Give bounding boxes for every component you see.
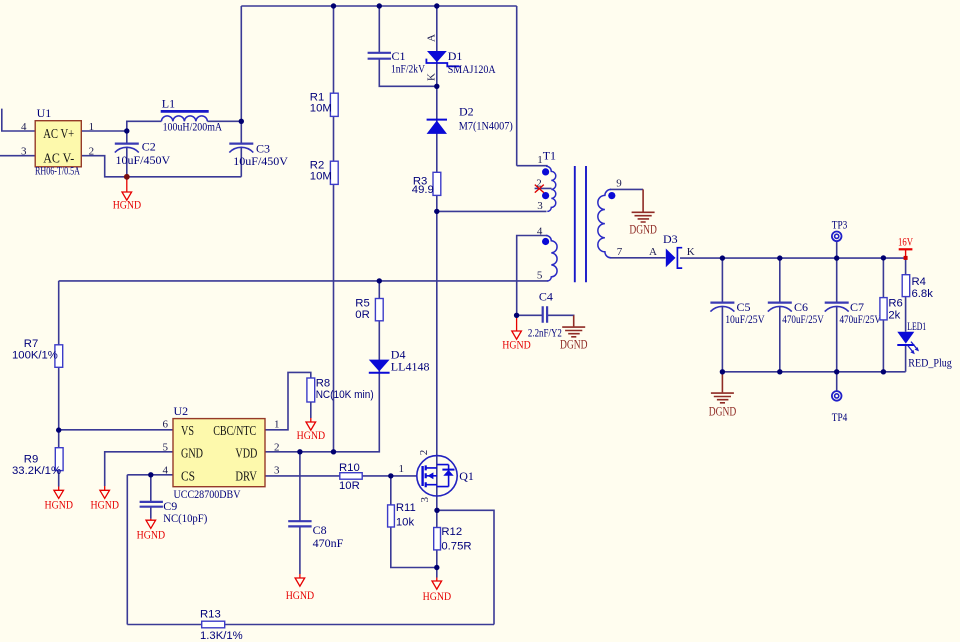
wire: VS pin6	[59, 429, 173, 431]
ground HGND (R12 source)	[423, 568, 452, 604]
wire: C1 branch	[379, 6, 437, 86]
svg-text:CS: CS	[181, 469, 195, 484]
capacitor C3	[229, 142, 288, 168]
IC U2 UCC28700	[163, 404, 281, 501]
ground DGND (C5)	[709, 372, 737, 419]
svg-text:DGND: DGND	[629, 222, 657, 236]
svg-text:SMAJ120A: SMAJ120A	[448, 62, 496, 76]
svg-text:UCC28700DBV: UCC28700DBV	[174, 487, 241, 501]
svg-text:6: 6	[163, 419, 169, 431]
wire: TP4 stem	[836, 372, 838, 392]
wire: C7 legs	[836, 258, 838, 372]
svg-text:D2: D2	[459, 104, 474, 118]
svg-text:HGND: HGND	[502, 340, 531, 352]
wire: C3 legs	[240, 121, 242, 177]
svg-text:M7(1N4007): M7(1N4007)	[459, 118, 513, 132]
transformer T1 primary winding 4-5	[537, 226, 557, 282]
ground HGND (R9)	[45, 487, 74, 512]
svg-text:Q1: Q1	[459, 469, 474, 483]
wire: R6 branch	[882, 258, 884, 372]
resistor R3	[412, 172, 441, 196]
svg-text:HGND: HGND	[286, 590, 315, 602]
transistor Q1	[417, 450, 474, 503]
svg-text:470uF/25V: 470uF/25V	[782, 312, 824, 326]
resistor R2	[310, 159, 338, 184]
svg-text:R7: R7	[24, 338, 38, 350]
svg-text:3: 3	[21, 146, 27, 158]
svg-text:100K/1%: 100K/1%	[12, 349, 58, 361]
svg-text:3: 3	[537, 200, 543, 212]
svg-text:9: 9	[616, 177, 622, 189]
svg-text:470nF: 470nF	[313, 536, 344, 550]
svg-text:10uF/25V: 10uF/25V	[725, 312, 765, 326]
wire: secondary return rail	[722, 371, 905, 373]
svg-text:16V: 16V	[898, 237, 914, 249]
test point TP3	[832, 217, 848, 241]
svg-text:HGND: HGND	[423, 591, 452, 603]
wire: C5 legs	[721, 258, 723, 372]
resistor R11	[388, 502, 416, 528]
svg-text:K: K	[687, 246, 695, 258]
ground DGND (C4)	[560, 315, 588, 351]
svg-text:HGND: HGND	[45, 499, 74, 511]
svg-text:DRV: DRV	[235, 469, 257, 484]
wire: AC input stub pin4	[2, 109, 35, 131]
svg-text:C2: C2	[142, 139, 156, 153]
svg-text:HGND: HGND	[91, 499, 120, 511]
wire: CBC/NTC pin1 to R8	[265, 372, 311, 429]
svg-text:R11: R11	[396, 502, 416, 514]
capacitor C7	[825, 300, 882, 326]
svg-text:AC V+: AC V+	[43, 126, 74, 141]
svg-text:HGND: HGND	[113, 200, 142, 212]
capacitor C4	[528, 290, 562, 340]
svg-text:5: 5	[537, 269, 543, 281]
power port 16V	[898, 237, 914, 260]
svg-text:10M: 10M	[310, 171, 332, 183]
svg-text:2: 2	[418, 450, 430, 456]
wire: secondary output rail	[680, 257, 906, 259]
wire: GND pin5	[105, 452, 173, 486]
svg-text:NC(10K min): NC(10K min)	[316, 389, 374, 401]
svg-text:1: 1	[399, 463, 405, 475]
node gate junction pin1	[399, 463, 405, 475]
resistor R10	[339, 462, 362, 492]
svg-text:6.8k: 6.8k	[912, 288, 934, 300]
svg-text:DGND: DGND	[709, 404, 737, 418]
transformer T1 primary winding 1-2-3	[536, 149, 556, 212]
resistor R8	[307, 377, 374, 402]
wire: VS net horizontal y281	[59, 280, 548, 282]
resistor R1	[310, 91, 338, 116]
svg-text:R13: R13	[200, 608, 221, 620]
svg-text:K: K	[426, 73, 438, 81]
svg-text:R4: R4	[912, 276, 926, 288]
svg-text:3: 3	[419, 497, 431, 503]
wire: MOSFET drain line	[436, 211, 438, 567]
wire: T1 pin9 to DGND	[610, 188, 643, 190]
svg-text:GND: GND	[181, 446, 203, 461]
wire: R7 chain vertical	[58, 281, 60, 487]
connector U1	[21, 106, 94, 178]
transformer T1 secondary winding 7-9	[598, 177, 623, 258]
ground HGND (U2 GND pin5)	[91, 486, 120, 511]
svg-text:C4: C4	[539, 290, 553, 304]
diode D1 TVS	[426, 34, 496, 81]
junction dot HGND net (dark red)	[124, 174, 130, 180]
svg-text:VDD: VDD	[235, 446, 257, 461]
svg-text:2: 2	[274, 441, 280, 453]
wire: U1 pin2 to HGND net	[81, 156, 241, 177]
svg-text:HGND: HGND	[137, 530, 166, 542]
wire: R1-R2 divider chain vertical	[333, 6, 335, 452]
svg-text:R8: R8	[316, 377, 330, 389]
svg-text:5: 5	[163, 441, 169, 453]
wire: C4 left leg	[517, 314, 543, 316]
svg-text:TP3: TP3	[832, 217, 848, 231]
svg-text:7: 7	[617, 246, 623, 258]
svg-text:R10: R10	[339, 462, 360, 474]
resistor R9	[12, 448, 63, 478]
svg-text:4: 4	[21, 121, 27, 133]
wire: AC input stub pin3	[0, 155, 35, 157]
diode D4	[369, 347, 430, 373]
ground HGND (C4/T1 pin4)	[502, 315, 531, 351]
wire: bottom rail with R13	[127, 624, 494, 626]
ground DGND (T1 pin9)	[629, 189, 657, 236]
capacitor C2	[115, 139, 171, 167]
svg-text:4: 4	[163, 464, 169, 476]
svg-text:U1: U1	[37, 106, 52, 120]
svg-text:49.9: 49.9	[412, 184, 434, 196]
svg-text:1: 1	[537, 154, 543, 166]
ground HGND (C9)	[137, 519, 166, 542]
svg-text:LL4148: LL4148	[391, 359, 430, 373]
svg-text:33.2K/1%: 33.2K/1%	[12, 465, 61, 477]
svg-text:L1: L1	[162, 96, 175, 110]
transformer T1 core	[575, 166, 586, 282]
svg-text:C8: C8	[313, 523, 327, 537]
svg-text:2: 2	[89, 146, 95, 158]
resistor R6	[880, 298, 903, 322]
svg-text:R1: R1	[310, 91, 324, 103]
diode D2	[427, 104, 513, 134]
resistor R4	[902, 275, 933, 300]
svg-text:D1: D1	[448, 49, 463, 63]
wire: R4-LED branch	[905, 258, 907, 372]
ground HGND (C8)	[286, 574, 315, 602]
wire: top HV rail	[241, 6, 516, 166]
svg-text:100uH/200mA: 100uH/200mA	[163, 120, 223, 134]
wire: C2 legs	[126, 131, 128, 177]
svg-text:RH06-T/0.5A: RH06-T/0.5A	[35, 164, 80, 178]
svg-text:0R: 0R	[355, 309, 369, 321]
capacitor C1	[368, 49, 426, 76]
svg-text:1nF/2kV: 1nF/2kV	[391, 62, 425, 76]
wire: C8 legs	[299, 452, 301, 574]
test point TP4	[832, 391, 848, 424]
wire: T1 pin1 entry	[517, 165, 548, 167]
svg-text:2.2nF/Y2: 2.2nF/Y2	[528, 326, 562, 340]
wire: DRV pin3 to gate	[265, 475, 417, 477]
svg-text:DGND: DGND	[560, 338, 588, 352]
wire: C9 legs	[150, 475, 152, 519]
svg-text:1: 1	[89, 121, 95, 133]
diode D3	[649, 232, 695, 268]
svg-text:R6: R6	[888, 298, 902, 310]
svg-text:10M: 10M	[310, 103, 332, 115]
svg-text:LED1: LED1	[907, 319, 926, 333]
svg-text:A: A	[649, 246, 657, 258]
wire: C6 legs	[779, 258, 781, 372]
svg-text:10k: 10k	[396, 517, 415, 529]
svg-text:NC(10pF): NC(10pF)	[163, 511, 207, 525]
svg-text:T1: T1	[543, 149, 556, 163]
wire: source sense right riser	[437, 510, 494, 624]
resistor R7	[12, 338, 63, 368]
svg-text:1.3K/1%: 1.3K/1%	[200, 630, 243, 642]
wire: U1 pin1 to C2/L1	[81, 121, 241, 131]
resistor R13	[200, 608, 243, 641]
wire: CS pin4	[127, 474, 173, 476]
svg-text:1: 1	[274, 419, 280, 431]
resistor R12	[434, 526, 472, 552]
wire: C4 right leg	[547, 314, 574, 317]
svg-text:D3: D3	[663, 232, 678, 246]
ground HGND (C2)	[113, 177, 142, 212]
svg-text:0.75R: 0.75R	[441, 541, 471, 553]
wire: T1 pin4 to C4 junction	[517, 236, 548, 316]
svg-text:10uF/450V: 10uF/450V	[116, 153, 171, 167]
svg-text:R9: R9	[24, 454, 38, 466]
resistor R5	[355, 298, 383, 321]
capacitor C8	[288, 521, 343, 550]
svg-text:R2: R2	[310, 159, 324, 171]
T1 pin2 no-connect stub	[535, 185, 552, 193]
ground HGND (R8)	[297, 402, 326, 442]
svg-text:RED_Plug: RED_Plug	[908, 355, 952, 369]
wire: T1 pin7 to D3 anode	[610, 257, 666, 259]
capacitor C6	[768, 300, 824, 326]
svg-text:10R: 10R	[339, 480, 360, 492]
svg-text:CBC/NTC: CBC/NTC	[213, 423, 256, 438]
svg-text:R12: R12	[441, 526, 462, 538]
svg-text:VS: VS	[181, 423, 194, 438]
svg-text:A: A	[426, 34, 438, 42]
svg-text:HGND: HGND	[297, 430, 326, 442]
svg-text:2k: 2k	[888, 310, 900, 322]
svg-text:C1: C1	[392, 49, 406, 63]
wire: T1 pin3 to R3	[437, 210, 547, 212]
svg-text:TP4: TP4	[832, 410, 848, 424]
wire: TP3 stem	[836, 241, 838, 258]
svg-text:U2: U2	[174, 404, 189, 418]
inductor L1	[161, 96, 223, 133]
svg-text:470uF/25V: 470uF/25V	[840, 312, 882, 326]
svg-text:3: 3	[274, 464, 280, 476]
wire: VDD pin2 to D4/R5	[265, 281, 379, 452]
capacitor C5	[710, 300, 765, 326]
wire: D1-D2-R3 branch vertical	[436, 6, 438, 211]
wire: CS to bottom rail	[126, 475, 128, 625]
svg-text:R5: R5	[355, 298, 369, 310]
svg-text:4: 4	[537, 226, 543, 238]
svg-text:10uF/450V: 10uF/450V	[233, 154, 288, 168]
LED LED1	[897, 319, 952, 370]
wire: R11 branch	[391, 476, 437, 568]
capacitor C9	[140, 499, 208, 525]
